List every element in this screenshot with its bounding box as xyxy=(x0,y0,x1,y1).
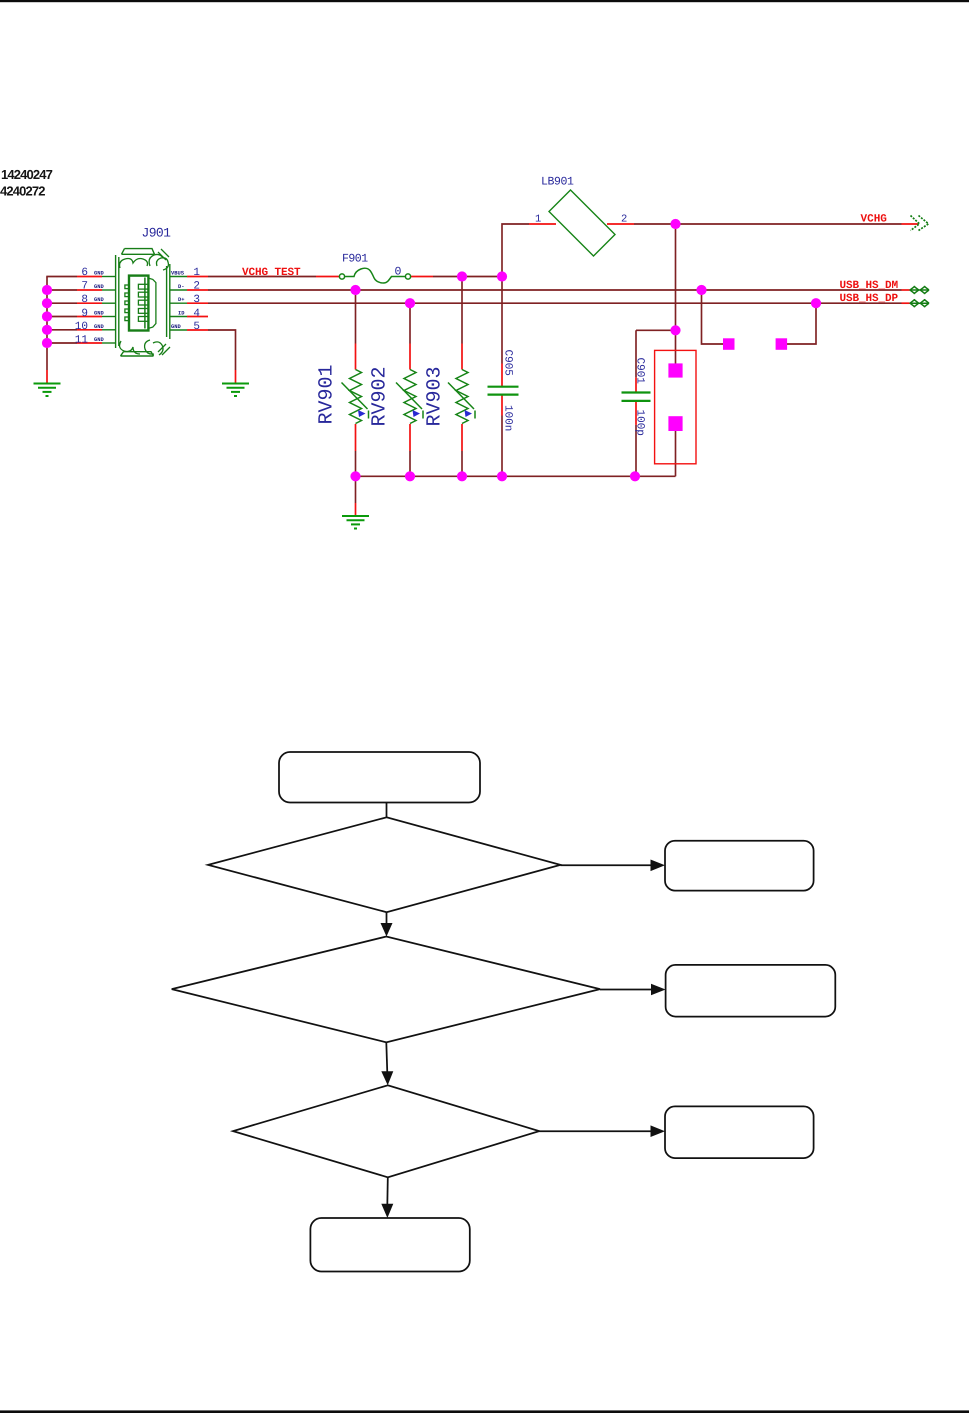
varistor RV902 xyxy=(396,370,423,424)
connector J901 body xyxy=(116,249,170,356)
svg-text:GND: GND xyxy=(94,324,104,330)
junction bus RV903 bottom xyxy=(457,471,467,481)
wire pin9 row xyxy=(47,316,77,318)
decision diamond 1 xyxy=(208,817,561,912)
pin stub J901-2 xyxy=(187,289,208,291)
svg-text:GND: GND xyxy=(171,324,181,330)
svg-text:9: 9 xyxy=(81,308,88,320)
svg-text:7: 7 xyxy=(81,281,88,293)
junction bus RV901 bottom xyxy=(350,471,360,481)
connector J901 pin lines (green) xyxy=(102,277,187,344)
svg-text:10: 10 xyxy=(75,321,88,333)
wire testpoint box lower drop xyxy=(675,431,677,476)
decision diamond 2 xyxy=(172,937,600,1043)
pin stub VCHG arrow xyxy=(902,223,919,225)
svg-text:C901: C901 xyxy=(634,358,646,385)
pin stub RV901 top xyxy=(355,344,357,370)
pin stub ground 1 xyxy=(46,370,48,383)
pin stub J901-4 xyxy=(187,316,208,318)
svg-text:RV902: RV902 xyxy=(369,366,392,426)
wire RV903 column xyxy=(461,277,463,477)
pin stub C901 top xyxy=(635,377,637,392)
arrow diamond 2 to result box 2 xyxy=(600,989,653,991)
wire USB_HS_DM horizontal xyxy=(208,289,902,291)
junction bus pin10 xyxy=(42,325,52,335)
testpoint square DP xyxy=(776,338,788,350)
pin stub RV902 bottom xyxy=(409,424,411,451)
svg-text:C905: C905 xyxy=(502,350,514,376)
wire left GND bus vertical xyxy=(46,277,48,371)
wire DP testpoint L xyxy=(787,303,816,344)
pin stub RV903 top xyxy=(461,344,463,370)
wire C901 tap horizontal xyxy=(636,329,676,331)
decision diamond 3 xyxy=(233,1085,539,1177)
pin stub J901-3 xyxy=(187,302,208,304)
wire pin6 row xyxy=(46,276,77,278)
wire pin11 row xyxy=(47,342,77,344)
ground pin5 xyxy=(222,384,249,397)
junction DM testpoint xyxy=(696,285,706,295)
svg-text:GND: GND xyxy=(94,311,104,317)
svg-text:4240272: 4240272 xyxy=(0,184,45,199)
junction VCHG drop xyxy=(670,219,680,229)
svg-text:VCHG: VCHG xyxy=(861,214,888,226)
svg-text:5: 5 xyxy=(193,321,200,333)
svg-text:GND: GND xyxy=(94,297,104,303)
svg-text:100p: 100p xyxy=(634,410,646,436)
wire VCHG junction drop to testpoint box xyxy=(675,224,677,364)
pin stub USB_HS_DM arrow xyxy=(902,289,910,291)
result box 1 xyxy=(665,841,814,891)
pin stub RV903 bottom xyxy=(461,424,463,451)
pin stub J901-11 xyxy=(77,342,102,344)
arrow diamond 3 to result box 3 xyxy=(539,1130,652,1132)
pin stub J901-10 xyxy=(77,329,102,331)
flowchart start box xyxy=(279,752,480,803)
pin stub C901 bottom xyxy=(635,402,637,425)
svg-text:RV903: RV903 xyxy=(424,366,447,426)
ground GND bus left xyxy=(34,384,61,397)
wire fuse to C905 column xyxy=(433,276,502,278)
junction bus C905 bottom xyxy=(497,471,507,481)
wire DM testpoint L xyxy=(702,290,724,344)
svg-text:0: 0 xyxy=(395,266,402,279)
junction DP testpoint xyxy=(811,298,821,308)
junction RV902 top xyxy=(405,298,415,308)
wire C901 column upper xyxy=(635,330,637,377)
wire bottom bus xyxy=(356,475,676,477)
wire LB901 pin2 to VCHG xyxy=(634,223,902,225)
svg-text:GND: GND xyxy=(94,284,104,290)
pin stub LB901-1 xyxy=(529,223,556,225)
svg-text:8: 8 xyxy=(81,294,88,306)
junction C901 tap xyxy=(670,325,680,335)
wire connector start-box to diamond 1 xyxy=(386,803,388,818)
svg-text:LB901: LB901 xyxy=(541,176,574,189)
junction bus RV902 bottom xyxy=(405,471,415,481)
wire USB_HS_DP horizontal xyxy=(208,302,902,304)
svg-text:USB_HS_DM: USB_HS_DM xyxy=(840,280,899,292)
page bottom rule xyxy=(0,1410,969,1413)
varistor RV903 arrow tip (blue) xyxy=(465,410,473,417)
pin stub RV901 bottom xyxy=(355,424,357,451)
svg-text:6: 6 xyxy=(81,267,88,279)
connector J901 inner contact assembly xyxy=(125,276,156,331)
svg-text:J901: J901 xyxy=(142,226,172,241)
junction RV903 top xyxy=(457,271,467,281)
pin stub J901-1 xyxy=(187,276,208,278)
svg-text:1: 1 xyxy=(193,267,200,279)
result box 3 xyxy=(665,1106,814,1158)
testpoint outline box (red) xyxy=(655,350,696,463)
pin stub USB_HS_DP arrow xyxy=(902,302,910,304)
testpoint square TP2 in box xyxy=(668,416,682,431)
ferrite bead LB901 xyxy=(549,190,615,256)
pin stub fuse left xyxy=(316,276,339,278)
svg-text:2: 2 xyxy=(193,281,200,293)
pin stub J901-6 xyxy=(77,276,102,278)
svg-text:2: 2 xyxy=(621,214,627,226)
pin stub C905 bottom xyxy=(501,395,503,416)
arrow diamond 3 to end box xyxy=(386,1177,389,1205)
junction bus pin9 xyxy=(42,311,52,321)
wire pin8 row xyxy=(47,302,77,304)
pin stub ground 2 xyxy=(235,370,237,383)
wire C905 riser to LB901 pin1 xyxy=(502,224,529,277)
ground bottom bus xyxy=(342,516,369,529)
pin stub J901-9 xyxy=(77,316,102,318)
fuse F901 xyxy=(339,268,410,283)
wire ground 3 stem xyxy=(355,476,357,503)
capacitor C905 plates xyxy=(488,387,519,395)
page top rule xyxy=(0,0,969,2)
capacitor C901 plates xyxy=(622,393,651,401)
varistor RV901 xyxy=(342,370,369,424)
pin stub J901-7 xyxy=(77,289,102,291)
wire pin5 to ground 2 xyxy=(208,330,236,370)
pin stub RV902 top xyxy=(409,344,411,370)
wire RV901 column xyxy=(355,290,357,476)
svg-text:14240247: 14240247 xyxy=(1,167,53,182)
svg-text:11: 11 xyxy=(75,334,89,346)
pin stub J901-8 xyxy=(77,302,102,304)
wire pin10 row xyxy=(47,329,77,331)
pin stub C905 top xyxy=(501,364,503,387)
wire pin1 to fuse F901 xyxy=(208,276,316,278)
junction C905 top xyxy=(497,271,507,281)
wire RV902 column xyxy=(409,303,411,476)
svg-text:USB_HS_DP: USB_HS_DP xyxy=(840,293,899,305)
svg-text:1: 1 xyxy=(535,214,541,226)
arrow diamond 1 to result box 1 xyxy=(561,864,653,866)
svg-text:RV901: RV901 xyxy=(316,364,339,424)
junction bus C901 bottom xyxy=(630,471,640,481)
svg-text:F901: F901 xyxy=(342,253,368,266)
junction RV901 top xyxy=(350,285,360,295)
pin stub J901-5 xyxy=(187,329,208,331)
port arrow USB_HS_DP (green bidirectional) xyxy=(910,299,930,307)
flowchart end box xyxy=(310,1218,469,1272)
svg-text:100n: 100n xyxy=(502,405,514,431)
arrow diamond 2 to diamond 3 xyxy=(386,1042,387,1073)
varistor RV902 arrow tip (blue) xyxy=(413,410,421,417)
svg-text:GND: GND xyxy=(94,271,104,277)
varistor RV901 arrow tip (blue) xyxy=(358,410,366,417)
testpoint square TP1 in box xyxy=(668,363,682,377)
pin stub fuse right xyxy=(411,276,433,278)
junction bus pin7 xyxy=(42,285,52,295)
svg-text:3: 3 xyxy=(193,294,200,306)
wire C905 column xyxy=(501,277,503,477)
svg-text:VCHG_TEST: VCHG_TEST xyxy=(242,267,301,279)
svg-text:4: 4 xyxy=(193,308,200,320)
arrow diamond 1 to diamond 2 xyxy=(386,912,388,925)
svg-text:ID: ID xyxy=(178,311,185,317)
testpoint square DM xyxy=(723,338,735,350)
wire C901 column lower xyxy=(635,425,637,476)
port arrow USB_HS_DM (green bidirectional) xyxy=(910,286,930,294)
varistor RV903 xyxy=(448,370,475,424)
svg-text:D-: D- xyxy=(178,284,184,290)
junction bus pin8 xyxy=(42,298,52,308)
pin stub ground 3 xyxy=(355,503,357,516)
svg-text:D+: D+ xyxy=(178,297,184,303)
wire pin7 row xyxy=(47,289,77,291)
port arrow VCHG (green double chevron) xyxy=(911,216,929,231)
svg-text:VBUS: VBUS xyxy=(171,271,185,277)
pin stub LB901-2 xyxy=(607,223,634,225)
result box 2 xyxy=(666,965,836,1017)
junction bus pin11 xyxy=(42,338,52,348)
svg-text:GND: GND xyxy=(94,337,104,343)
